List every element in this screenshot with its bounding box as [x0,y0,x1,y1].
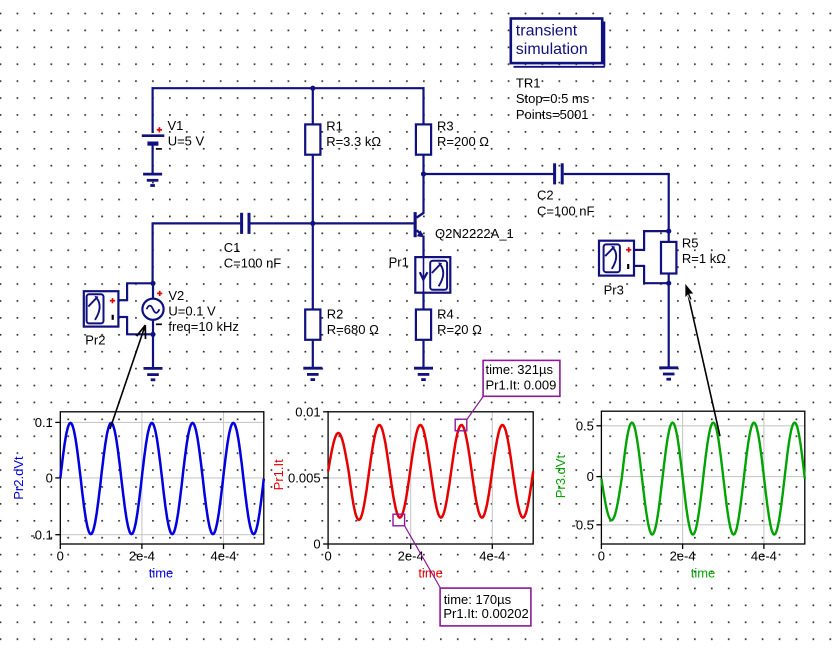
resistor R1 [305,124,320,154]
node R5 top junction [666,229,671,234]
wire base rail right segment [250,222,413,224]
wire R3 top lead [422,87,424,125]
svg-text:R4: R4 [437,307,454,322]
transistor Q2N2222A_1 [414,212,417,237]
svg-text:Stop=0.5 ms: Stop=0.5 ms [516,91,590,106]
svg-text:0: 0 [46,471,53,486]
svg-text:R2: R2 [327,307,344,322]
svg-text:4e-4: 4e-4 [210,549,236,564]
capacitor C2 [553,163,556,184]
blue plot frame and grid [60,421,263,423]
svg-text:Pr3: Pr3 [604,283,624,298]
wire R2 bottom lead [312,341,314,368]
wire collector rail to C2 [424,173,554,175]
svg-text:R5: R5 [682,236,699,251]
svg-text:C1: C1 [224,240,241,255]
node R3 collector junction [421,171,426,176]
svg-text:U=0.1 V: U=0.1 V [168,304,216,319]
svg-text:R3: R3 [437,119,454,134]
annotation arrow green plot to R5 [686,286,720,437]
ground below V2 [144,367,163,370]
marker connector line to box 1 [467,396,484,420]
svg-text:-0.1: -0.1 [30,527,52,542]
wire V1 top lead [152,87,154,133]
svg-text:V1: V1 [168,118,184,133]
node top rail R1 junction [310,86,315,91]
voltage source V2 AC [152,283,154,298]
ground below R5 [659,366,678,369]
svg-text:R=3.3 kΩ: R=3.3 kΩ [326,134,381,149]
svg-text:R=680 Ω: R=680 Ω [327,322,379,337]
svg-text:U=5 V: U=5 V [168,134,205,149]
svg-text:Pr3.dVt: Pr3.dVt [553,455,568,499]
svg-text:0.01: 0.01 [295,404,320,419]
resistor R4 [416,310,431,340]
wire R1 top lead [312,88,314,125]
wire Pr2 bottom lead [118,316,127,318]
svg-text:Pr2: Pr2 [85,333,105,348]
svg-text:0.5: 0.5 [576,418,594,433]
probe Pr2 voltmeter box [84,291,119,326]
marker connector line to box 2 [405,526,441,589]
resistor R5 [668,231,670,242]
svg-text:TR1: TR1 [516,75,541,90]
red plot curve Pr1.It [328,425,533,520]
green plot curve Pr3.dVt [601,423,804,535]
wire Pr2 top lead [118,299,127,301]
wire top rail [152,87,425,89]
marker label box time 321us [483,360,560,396]
wire Pr3 top lead [634,249,644,251]
wire R2 top lead [312,222,314,310]
svg-text:-0.5: -0.5 [571,517,593,532]
wire R3 bottom lead [422,155,424,175]
annotation arrow blue plot to V2 [110,325,145,429]
transient simulation box [511,19,602,64]
svg-text:0: 0 [587,469,594,484]
wire R4 bottom lead [422,341,424,368]
resistor R2 [305,310,320,340]
capacitor C1 [240,213,243,234]
svg-text:C=100 nF: C=100 nF [224,255,282,270]
node R5 bottom junction [666,281,671,286]
marker square on red curve t=170us [393,514,405,526]
red plot frame and grid [328,477,533,479]
wire R1 bottom lead [312,155,314,224]
svg-text:C2: C2 [537,188,554,203]
wire emitter lead [422,236,424,311]
svg-text:R=200 Ω: R=200 Ω [437,134,489,149]
svg-text:R1: R1 [326,119,343,134]
svg-text:time: time [418,565,443,580]
svg-text:freq=10 kHz: freq=10 kHz [168,319,238,334]
ground below R4 [414,367,433,370]
probe Pr3 voltmeter box [599,241,634,276]
svg-text:0: 0 [598,549,605,564]
node V2 bottom junction [150,332,155,337]
wire V2 to ground [152,334,154,367]
svg-text:4e-4: 4e-4 [479,549,505,564]
node base rail R1-R2 junction [310,221,315,226]
marker square on red curve t=321us [455,419,467,431]
svg-text:Points=5001: Points=5001 [516,107,589,122]
svg-text:0: 0 [313,537,320,552]
probe Pr1 current probe box [415,257,450,293]
svg-text:Pr1.It: Pr1.It [271,459,286,490]
node V2 top junction [150,281,155,286]
wire base rail left corner down [152,222,154,284]
svg-text:2e-4: 2e-4 [129,549,155,564]
svg-text:V2: V2 [168,288,184,303]
mouse cursor [685,283,694,300]
green plot frame and grid [601,425,804,427]
wire R5 to ground [668,283,670,367]
svg-text:Pr2.dVt: Pr2.dVt [11,456,26,500]
svg-text:0.005: 0.005 [288,471,321,486]
wire V1 bottom lead [152,146,154,174]
svg-text:0.1: 0.1 [35,415,53,430]
svg-text:transient: transient [516,22,578,39]
svg-text:2e-4: 2e-4 [398,549,424,564]
svg-text:R=1 kΩ: R=1 kΩ [682,251,726,266]
svg-text:Pr1: Pr1 [389,255,409,270]
svg-text:Pr1.It: 0.00202: Pr1.It: 0.00202 [443,606,528,621]
svg-text:simulation: simulation [516,41,588,58]
wire V2 bottom lead [152,320,154,335]
svg-text:time: time [691,565,716,580]
ground below V1 [143,173,162,176]
blue plot curve Pr2.dVt [60,423,263,534]
svg-text:time: 170µs: time: 170µs [444,592,512,607]
wire collector lead [422,174,424,214]
wire Pr3 bottom lead [634,265,644,267]
svg-text:4e-4: 4e-4 [751,549,777,564]
svg-text:Q2N2222A_1: Q2N2222A_1 [435,226,514,241]
svg-text:0: 0 [324,549,331,564]
svg-text:R=20 Ω: R=20 Ω [437,322,482,337]
wire base rail left segment [153,222,241,224]
wire C2 to R5 corner [564,173,670,175]
svg-text:2e-4: 2e-4 [670,549,696,564]
svg-text:time: time [149,565,174,580]
svg-text:Pr1.It: 0.009: Pr1.It: 0.009 [486,377,557,392]
ground below R2 [303,367,322,370]
svg-text:0: 0 [57,549,64,564]
svg-text:C=100 nF: C=100 nF [537,204,595,219]
resistor R3 [416,124,431,154]
svg-text:time: 321µs: time: 321µs [486,362,554,377]
voltage source V1 battery [142,134,165,137]
marker label box time 170us [440,588,531,626]
